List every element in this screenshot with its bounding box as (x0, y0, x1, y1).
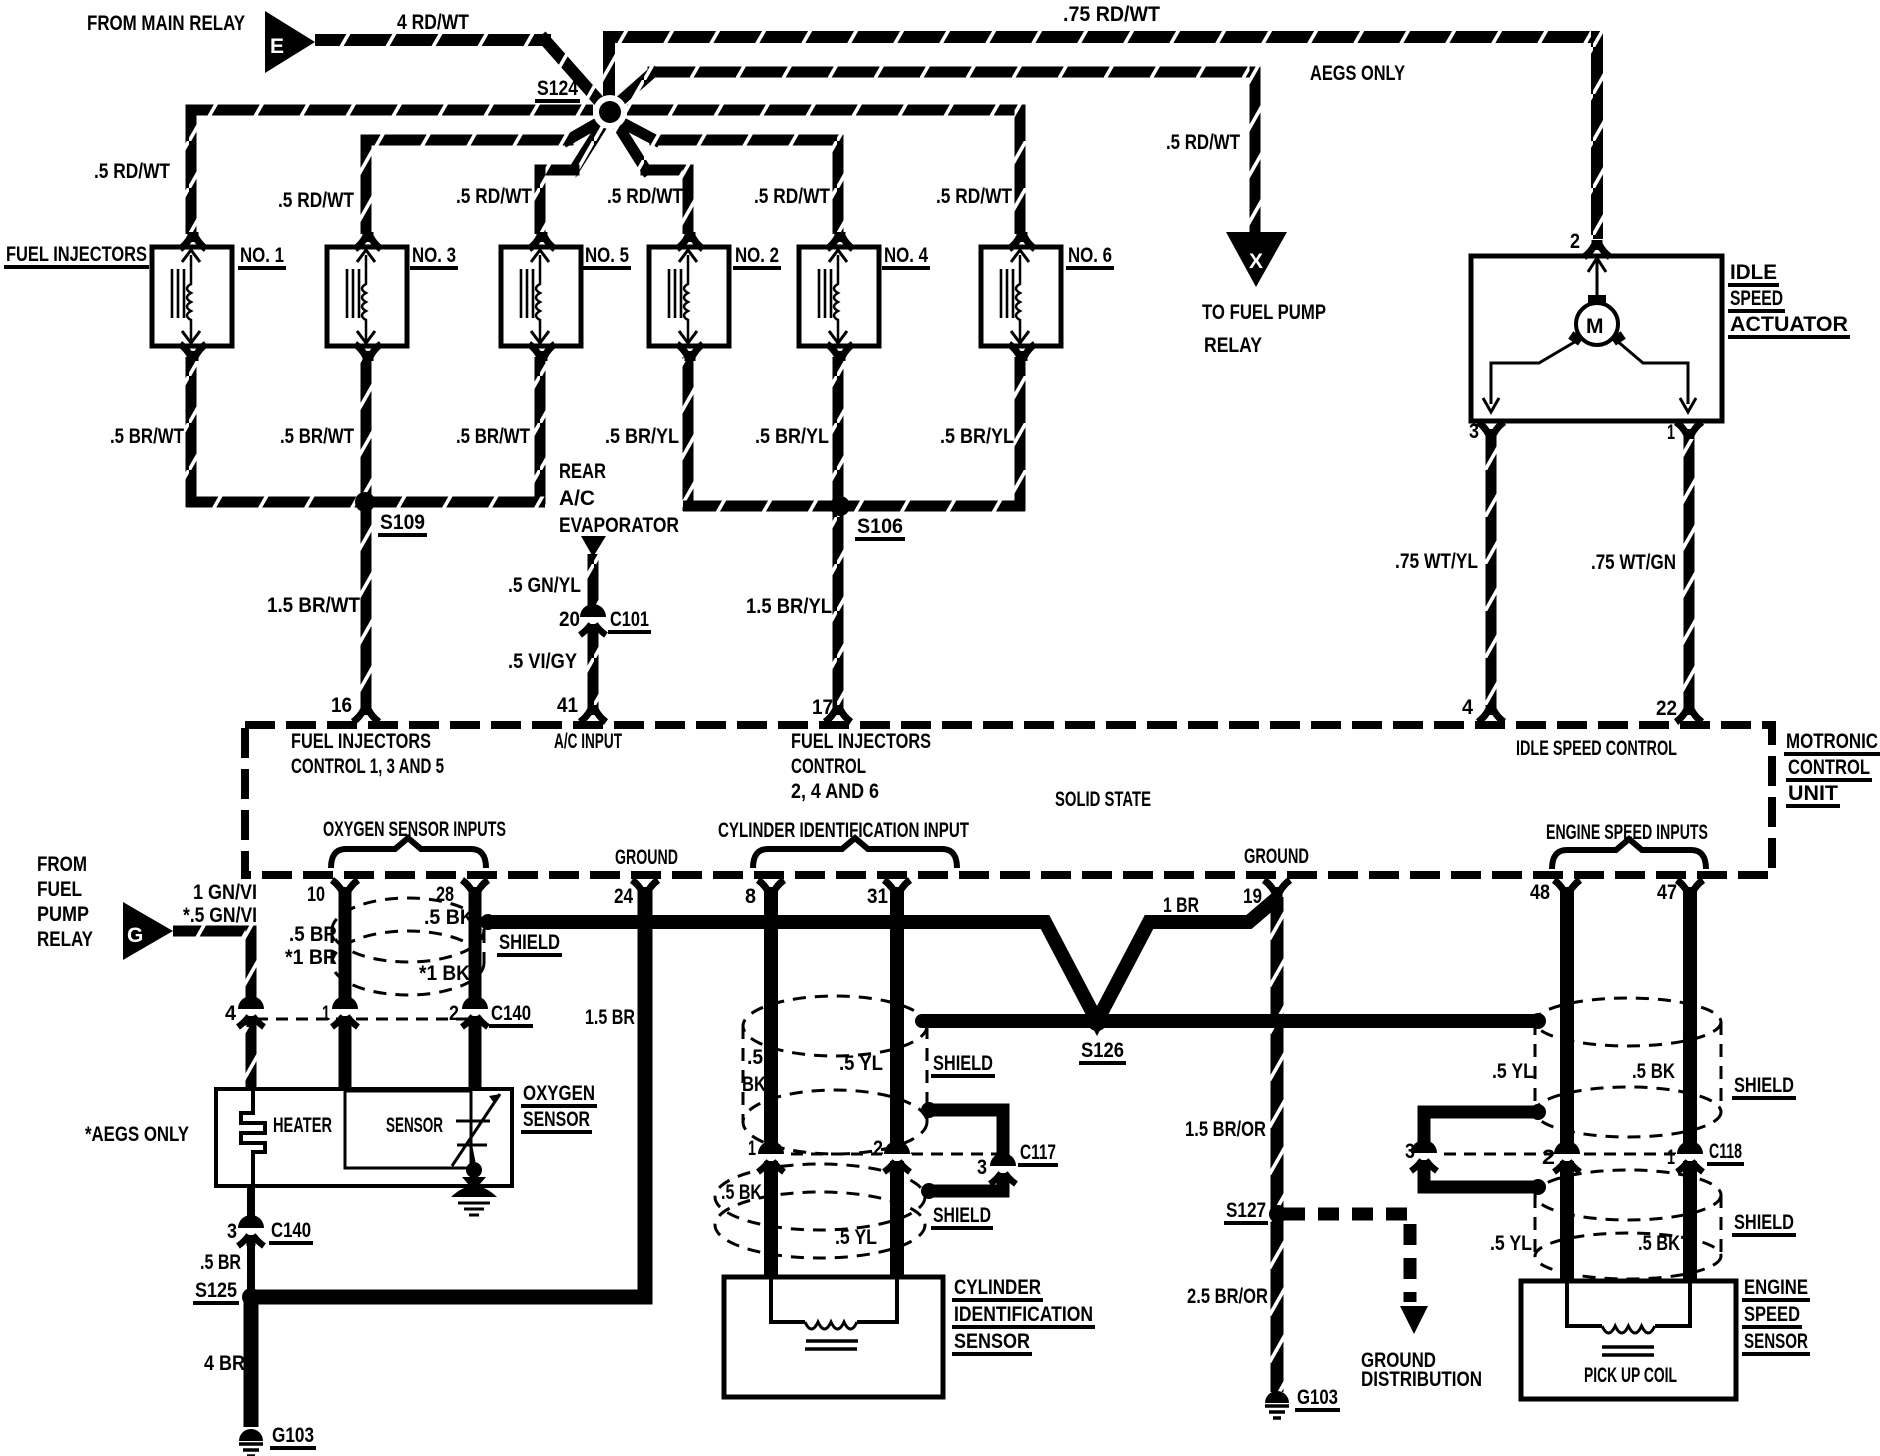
svg-text:PICK UP COIL: PICK UP COIL (1584, 1364, 1677, 1387)
svg-text:.5 BR/WT: .5 BR/WT (110, 425, 184, 448)
svg-text:ACTUATOR: ACTUATOR (1730, 313, 1848, 336)
svg-text:2: 2 (1570, 230, 1580, 253)
svg-text:NO. 6: NO. 6 (1068, 244, 1112, 267)
svg-text:EVAPORATOR: EVAPORATOR (559, 514, 679, 537)
svg-text:C140: C140 (491, 1002, 531, 1025)
svg-text:.5 YL: .5 YL (1492, 1060, 1534, 1083)
svg-text:OXYGEN SENSOR INPUTS: OXYGEN SENSOR INPUTS (323, 818, 506, 841)
svg-text:.75 WT/YL: .75 WT/YL (1395, 550, 1478, 573)
svg-text:GROUND: GROUND (1244, 845, 1309, 868)
svg-text:FROM MAIN RELAY: FROM MAIN RELAY (87, 12, 245, 35)
svg-text:SHIELD: SHIELD (933, 1052, 993, 1075)
svg-text:1: 1 (1667, 1146, 1675, 1169)
svg-text:CONTROL: CONTROL (791, 755, 866, 778)
svg-text:AEGS ONLY: AEGS ONLY (1310, 62, 1405, 85)
svg-text:IDLE: IDLE (1730, 261, 1777, 284)
svg-text:C140: C140 (271, 1219, 311, 1242)
svg-text:SENSOR: SENSOR (954, 1330, 1030, 1353)
svg-text:1.5 BR/OR: 1.5 BR/OR (1185, 1118, 1266, 1141)
svg-text:SPEED: SPEED (1730, 287, 1783, 310)
svg-text:47: 47 (1657, 881, 1677, 904)
svg-text:G103: G103 (272, 1424, 314, 1447)
svg-text:.5 GN/YL: .5 GN/YL (508, 574, 581, 597)
svg-text:.5 VI/GY: .5 VI/GY (508, 650, 577, 673)
svg-text:1 GN/VI: 1 GN/VI (193, 881, 257, 904)
svg-text:REAR: REAR (559, 460, 606, 483)
svg-text:.5 BR/YL: .5 BR/YL (940, 425, 1014, 448)
svg-text:DISTRIBUTION: DISTRIBUTION (1361, 1368, 1482, 1391)
svg-text:48: 48 (1530, 881, 1550, 904)
svg-text:1.5 BR: 1.5 BR (585, 1006, 635, 1029)
svg-text:*.5 GN/VI: *.5 GN/VI (183, 904, 257, 927)
svg-text:G: G (127, 924, 143, 947)
svg-text:10: 10 (307, 883, 325, 906)
svg-text:2: 2 (1542, 1146, 1555, 1169)
svg-text:41: 41 (557, 694, 578, 717)
svg-text:.5 BR: .5 BR (200, 1251, 241, 1274)
svg-text:2, 4 AND 6: 2, 4 AND 6 (791, 780, 879, 803)
svg-text:1 BR: 1 BR (1163, 894, 1199, 917)
svg-text:.5 BK: .5 BK (1638, 1232, 1680, 1255)
svg-text:SHIELD: SHIELD (1734, 1074, 1794, 1097)
svg-text:2: 2 (873, 1137, 883, 1160)
svg-text:E: E (270, 35, 284, 58)
svg-text:S109: S109 (380, 511, 425, 534)
svg-text:FUEL INJECTORS: FUEL INJECTORS (791, 730, 931, 753)
svg-text:.5 RD/WT: .5 RD/WT (456, 185, 532, 208)
svg-text:1.5 BR/WT: 1.5 BR/WT (267, 594, 360, 617)
svg-text:IDENTIFICATION: IDENTIFICATION (954, 1303, 1093, 1326)
svg-text:1: 1 (1667, 421, 1675, 444)
svg-text:IDLE SPEED CONTROL: IDLE SPEED CONTROL (1516, 737, 1677, 760)
svg-text:ENGINE: ENGINE (1744, 1276, 1808, 1299)
svg-text:CONTROL 1, 3 AND 5: CONTROL 1, 3 AND 5 (291, 755, 444, 778)
svg-text:*1 BR: *1 BR (285, 946, 337, 969)
svg-text:NO. 1: NO. 1 (240, 244, 284, 267)
svg-text:S125: S125 (195, 1279, 237, 1302)
svg-text:A/C: A/C (559, 487, 595, 510)
svg-text:MOTRONIC: MOTRONIC (1786, 730, 1878, 753)
svg-text:.5 YL: .5 YL (835, 1226, 877, 1249)
svg-text:FUEL INJECTORS: FUEL INJECTORS (291, 730, 431, 753)
svg-text:.5 BK: .5 BK (721, 1181, 762, 1204)
svg-text:1: 1 (322, 1002, 330, 1025)
svg-text:1.5 BR/YL: 1.5 BR/YL (746, 595, 832, 618)
svg-text:S106: S106 (857, 515, 903, 538)
svg-text:FUEL INJECTORS: FUEL INJECTORS (6, 243, 147, 266)
svg-text:.75 WT/GN: .75 WT/GN (1591, 551, 1676, 574)
svg-text:.5 RD/WT: .5 RD/WT (607, 185, 683, 208)
svg-text:4: 4 (1462, 696, 1473, 719)
svg-text:.5 BK: .5 BK (1632, 1060, 1675, 1083)
svg-text:.5 YL: .5 YL (839, 1052, 883, 1075)
svg-text:3: 3 (1405, 1140, 1415, 1163)
svg-text:24: 24 (614, 885, 633, 908)
svg-text:19: 19 (1243, 885, 1262, 908)
svg-text:NO. 2: NO. 2 (735, 244, 779, 267)
svg-text:C101: C101 (610, 608, 649, 631)
svg-text:S126: S126 (1081, 1039, 1124, 1062)
svg-text:NO. 5: NO. 5 (585, 244, 629, 267)
svg-text:3: 3 (227, 1220, 237, 1243)
svg-text:4: 4 (225, 1002, 236, 1025)
svg-text:FROM: FROM (37, 853, 87, 876)
svg-text:*1 BK: *1 BK (419, 962, 470, 985)
svg-text:16: 16 (331, 694, 352, 717)
svg-text:C117: C117 (1020, 1141, 1056, 1164)
svg-text:CYLINDER: CYLINDER (954, 1276, 1041, 1299)
svg-text:.5 BK: .5 BK (424, 906, 474, 929)
svg-text:8: 8 (745, 885, 756, 908)
svg-text:CYLINDER IDENTIFICATION INPUT: CYLINDER IDENTIFICATION INPUT (718, 819, 969, 842)
svg-text:SHIELD: SHIELD (1734, 1211, 1794, 1234)
svg-text:3: 3 (977, 1156, 987, 1179)
svg-text:SPEED: SPEED (1744, 1303, 1800, 1326)
svg-text:.5 BR: .5 BR (289, 923, 337, 946)
svg-text:GROUND: GROUND (615, 846, 678, 869)
svg-text:UNIT: UNIT (1788, 782, 1838, 805)
svg-text:.5 BR/WT: .5 BR/WT (456, 425, 530, 448)
svg-text:RELAY: RELAY (1204, 334, 1262, 357)
svg-text:SENSOR: SENSOR (523, 1108, 590, 1131)
svg-text:S124: S124 (537, 77, 578, 100)
svg-text:CONTROL: CONTROL (1788, 756, 1870, 779)
svg-text:PUMP: PUMP (37, 903, 89, 926)
svg-text:SHIELD: SHIELD (499, 931, 560, 954)
svg-text:X: X (1249, 250, 1263, 273)
svg-text:NO. 4: NO. 4 (884, 244, 928, 267)
svg-text:BK: BK (742, 1073, 766, 1096)
svg-text:C118: C118 (1709, 1140, 1742, 1163)
svg-text:FUEL: FUEL (37, 878, 82, 901)
svg-text:.5 RD/WT: .5 RD/WT (936, 185, 1012, 208)
svg-text:2: 2 (449, 1002, 459, 1025)
svg-text:.5 BR/YL: .5 BR/YL (755, 425, 829, 448)
svg-text:.5 RD/WT: .5 RD/WT (1166, 131, 1240, 154)
svg-text:28: 28 (436, 883, 454, 906)
svg-text:OXYGEN: OXYGEN (523, 1082, 595, 1105)
svg-text:.5 RD/WT: .5 RD/WT (278, 189, 354, 212)
svg-text:.75 RD/WT: .75 RD/WT (1063, 3, 1160, 26)
svg-text:31: 31 (867, 885, 888, 908)
svg-text:.5 RD/WT: .5 RD/WT (754, 185, 830, 208)
svg-text:SHIELD: SHIELD (933, 1204, 991, 1227)
svg-text:4 RD/WT: 4 RD/WT (397, 11, 469, 34)
svg-text:3: 3 (1469, 420, 1479, 443)
svg-text:.5 YL: .5 YL (1490, 1232, 1532, 1255)
svg-text:.5 BR/YL: .5 BR/YL (605, 425, 679, 448)
svg-text:G103: G103 (1297, 1386, 1338, 1409)
svg-text:2.5 BR/OR: 2.5 BR/OR (1187, 1285, 1268, 1308)
svg-text:22: 22 (1656, 697, 1677, 720)
svg-text:SOLID STATE: SOLID STATE (1055, 788, 1151, 811)
svg-text:.5 RD/WT: .5 RD/WT (94, 160, 170, 183)
svg-text:TO FUEL PUMP: TO FUEL PUMP (1202, 301, 1326, 324)
svg-text:A/C INPUT: A/C INPUT (554, 730, 622, 753)
svg-text:20: 20 (559, 608, 580, 631)
svg-text:.5: .5 (747, 1046, 763, 1069)
svg-text:17: 17 (812, 696, 833, 719)
svg-text:HEATER: HEATER (273, 1114, 332, 1137)
svg-text:1: 1 (748, 1137, 756, 1160)
svg-text:M: M (1586, 315, 1604, 338)
svg-text:4 BR: 4 BR (204, 1352, 245, 1375)
svg-text:.5 BR/WT: .5 BR/WT (280, 425, 354, 448)
svg-text:SENSOR: SENSOR (1744, 1330, 1808, 1353)
svg-text:S127: S127 (1226, 1199, 1266, 1222)
svg-text:RELAY: RELAY (37, 928, 93, 951)
svg-text:ENGINE SPEED INPUTS: ENGINE SPEED INPUTS (1546, 821, 1708, 844)
svg-text:*AEGS ONLY: *AEGS ONLY (85, 1123, 189, 1146)
svg-text:NO. 3: NO. 3 (412, 244, 456, 267)
svg-text:SENSOR: SENSOR (386, 1114, 443, 1137)
